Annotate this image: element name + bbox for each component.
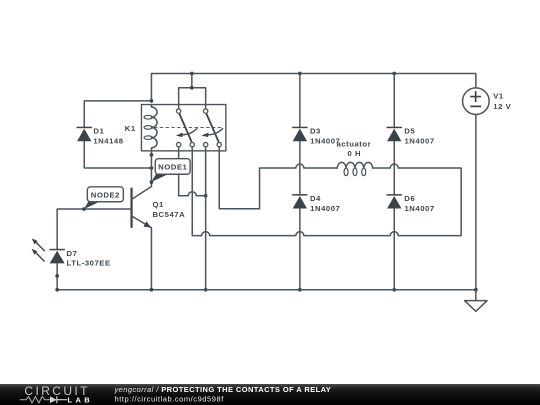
wire D1 bottom xyxy=(84,141,151,168)
svg-text:D4: D4 xyxy=(310,194,321,203)
relay K1 pole 2 common terminal xyxy=(203,109,207,113)
node NODE1 callout xyxy=(151,159,190,182)
svg-text:1N4007: 1N4007 xyxy=(404,136,434,145)
wire V1 to ground bus xyxy=(475,114,477,289)
footer bar xyxy=(0,384,540,405)
svg-text:D7: D7 xyxy=(67,249,78,258)
svg-text:D3: D3 xyxy=(310,126,321,135)
junction pole1 throwA tie / pole2 throwA branch xyxy=(204,194,208,198)
svg-text:1N4007: 1N4007 xyxy=(310,204,340,213)
voltage source V1 xyxy=(463,88,490,115)
svg-text:BC547A: BC547A xyxy=(152,210,185,219)
svg-text:actuator: actuator xyxy=(336,140,371,149)
wire D7 cathode to ground bus xyxy=(56,263,58,289)
led D7 xyxy=(32,238,65,263)
svg-text:1N4007: 1N4007 xyxy=(404,204,434,213)
junction coil top / D1 xyxy=(150,99,154,103)
junction D6 / ground bus xyxy=(392,288,396,292)
relay K1 pole 2 throw A terminal xyxy=(203,142,207,146)
junction top rail / D5 branch xyxy=(392,72,396,76)
junction top rail / switch feed xyxy=(190,72,194,76)
relay K1 switch lever 2 xyxy=(206,113,218,141)
diode D4 xyxy=(292,195,307,209)
svg-text:1N4007: 1N4007 xyxy=(310,136,340,145)
wire Q1 base (net NODE2) xyxy=(57,209,131,250)
relay K1 switch lever 1 xyxy=(179,113,191,141)
diode D6 xyxy=(387,195,402,209)
junction top rail / D3 branch xyxy=(298,72,302,76)
relay K1 pole 1 common terminal xyxy=(176,109,180,113)
junction coil bottom / D1 xyxy=(150,166,154,170)
ground symbol xyxy=(465,290,487,312)
wire D1 top xyxy=(84,101,151,128)
wire coil bottom to Q1 collector (net NODE1) xyxy=(150,151,152,187)
wire D3 D4 branch xyxy=(299,73,301,289)
diode D5 xyxy=(387,127,402,141)
relay K1 pole 1 throw A terminal xyxy=(176,142,180,146)
diode D1 xyxy=(77,127,92,141)
wire Q1 emitter to ground bus xyxy=(150,228,152,290)
svg-text:LAB: LAB xyxy=(68,396,94,405)
relay K1 coil xyxy=(144,105,157,151)
wire D5 D6 branch xyxy=(393,73,395,289)
junction NODE1 attach point xyxy=(150,180,154,184)
junction D7 / ground bus corner xyxy=(55,288,59,292)
junction pole2 throwA / ground bus xyxy=(204,288,208,292)
wire relay pole2 throwA to ground bus xyxy=(205,147,207,290)
junction V1 / ground bus xyxy=(474,288,478,292)
wire relay switch common feed xyxy=(179,73,206,109)
logo resistor-diode strip xyxy=(20,396,68,403)
svg-text:V1: V1 xyxy=(493,91,504,100)
svg-text:1N4148: 1N4148 xyxy=(93,136,123,145)
svg-text:0 H: 0 H xyxy=(347,149,361,158)
svg-text:D6: D6 xyxy=(404,194,415,203)
relay K1 body xyxy=(141,105,225,151)
junction NODE2 attach point xyxy=(82,207,86,211)
wire relay pole1 throwA to ground bus tie xyxy=(179,147,206,196)
svg-text:12 V: 12 V xyxy=(493,102,511,111)
relay K1 pole 1 throw B terminal xyxy=(190,142,194,146)
relay K1 actuation arrow 1 xyxy=(176,129,197,138)
junction switch feed tee xyxy=(190,86,194,90)
junction D4 / ground bus xyxy=(298,288,302,292)
node NODE2 callout xyxy=(84,187,123,209)
relay K1 pole 2 throw B terminal xyxy=(217,142,221,146)
svg-text:http://circuitlab.com/c9d598f: http://circuitlab.com/c9d598f xyxy=(115,395,225,404)
junction Q1 emitter / ground bus xyxy=(150,288,154,292)
relay K1 dashed mechanical link xyxy=(154,127,223,129)
wire relay pole1 throwB to actuator return xyxy=(192,147,461,236)
transistor Q1 xyxy=(132,186,152,227)
svg-text:yengcorral / PROTECTING THE CO: yengcorral / PROTECTING THE CONTACTS OF … xyxy=(114,385,332,394)
svg-text:LTL-307EE: LTL-307EE xyxy=(67,259,111,268)
svg-text:K1: K1 xyxy=(125,124,136,133)
svg-text:D1: D1 xyxy=(93,126,104,135)
inductor actuator xyxy=(337,162,372,175)
svg-text:NODE1: NODE1 xyxy=(158,163,187,172)
diode D3 xyxy=(292,127,307,141)
svg-text:Q1: Q1 xyxy=(152,200,164,209)
junction D7 lead xyxy=(55,274,59,278)
wire relay pole2 throwB to actuator left xyxy=(219,147,337,209)
svg-text:NODE2: NODE2 xyxy=(91,190,120,199)
svg-text:D5: D5 xyxy=(404,126,415,135)
wire top rail xyxy=(151,73,475,100)
ground bus wire xyxy=(57,289,476,291)
junction coil bottom terminal xyxy=(150,153,154,157)
relay K1 actuation arrow 2 xyxy=(202,129,223,138)
